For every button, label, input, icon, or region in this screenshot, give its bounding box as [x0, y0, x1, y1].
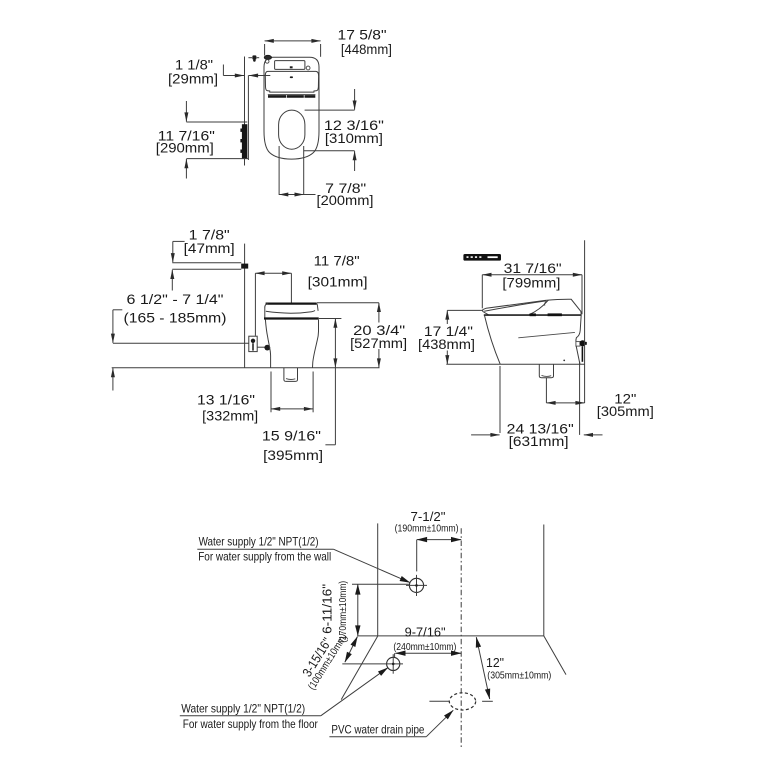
seat line [264, 317, 319, 319]
dimension 3-15/16 (100mm±10mm) [299, 632, 357, 692]
drain pipe below floor [539, 365, 553, 378]
back shelf box [576, 342, 580, 347]
svg-text:[47mm]: [47mm] [184, 240, 235, 256]
svg-text:For water supply from the wall: For water supply from the wall [198, 550, 331, 564]
seat front curve [529, 301, 547, 315]
svg-text:9-7/16": 9-7/16" [405, 624, 446, 639]
wall floor junction [357, 635, 544, 637]
dimension 11 7/8 [301mm] [255, 252, 367, 335]
svg-text:[290mm]: [290mm] [156, 140, 214, 156]
drain pipe ellipse [449, 693, 475, 710]
dimension 12 3/16 [310mm] [304, 89, 384, 171]
mounting plate on wall [240, 124, 247, 158]
svg-text:[29mm]: [29mm] [168, 70, 218, 86]
remote control [463, 254, 501, 261]
dimension 6 1/2 - 7 1/4 (165-185mm) [113, 291, 249, 391]
floor line [112, 367, 380, 369]
svg-text:15 9/16": 15 9/16" [262, 428, 321, 444]
svg-text:Water supply 1/2" NPT(1/2): Water supply 1/2" NPT(1/2) [199, 535, 319, 549]
drain ticks [429, 700, 492, 702]
dimension 7-1/2 (190mm±10mm) [395, 509, 462, 572]
left wall line [377, 523, 379, 636]
dimension 1 7/8 [47mm] [172, 226, 234, 290]
seat front thin line [268, 93, 316, 95]
PVC drain label [329, 710, 453, 736]
right wall line [543, 525, 545, 636]
dimension 17 5/8 [448mm] [265, 26, 392, 57]
svg-text:[448mm]: [448mm] [341, 41, 392, 57]
svg-text:(165 - 185mm): (165 - 185mm) [124, 310, 227, 326]
svg-text:[332mm]: [332mm] [202, 408, 258, 424]
dimension 7 7/8 [200mm] [279, 146, 373, 208]
supply valve box [249, 336, 257, 351]
floor supply circle [342, 654, 403, 674]
control panel rectangle [275, 61, 305, 70]
supply pipe [241, 264, 248, 269]
front face [485, 316, 501, 365]
seat line with dark pads [484, 314, 582, 316]
body sides [265, 320, 318, 368]
svg-text:(190mm±10mm): (190mm±10mm) [395, 524, 459, 535]
wall line [244, 244, 246, 368]
svg-text:[200mm]: [200mm] [317, 192, 374, 208]
svg-text:(240mm±10mm): (240mm±10mm) [393, 642, 456, 653]
right corner diagonal [544, 636, 566, 675]
centerline [460, 528, 462, 748]
dimension 11 7/16 [290mm] [156, 101, 249, 179]
svg-text:11 7/8": 11 7/8" [314, 252, 360, 268]
svg-text:6 1/2" - 7 1/4": 6 1/2" - 7 1/4" [127, 291, 224, 307]
dimension 12 [305mm] [546, 390, 653, 419]
dimension 17 1/4 [438mm] [418, 310, 483, 364]
floor line [446, 363, 585, 365]
dimension 1 1/8 [29mm] [168, 57, 270, 87]
bowl opening [279, 110, 305, 149]
toilet front view: lid top [265, 304, 318, 311]
dimension 13 1/16 [332mm] [197, 372, 313, 424]
seat lid outline [265, 71, 318, 92]
supply hose down [581, 346, 583, 361]
svg-text:7-1/2": 7-1/2" [411, 509, 446, 524]
svg-text:Water supply 1/2" NPT(1/2): Water supply 1/2" NPT(1/2) [181, 702, 305, 716]
svg-text:[395mm]: [395mm] [263, 447, 323, 463]
small circle right of panel [306, 66, 310, 70]
toilet side view: lid top outline [483, 299, 582, 315]
dimension 31 7/16 [799mm] [482, 260, 582, 314]
dimension 24 13/16 [631mm] [471, 366, 602, 449]
wall line [244, 57, 246, 166]
dimension 6-11/16 (170mm±10mm) [320, 581, 409, 643]
water inlet oval on toilet [264, 55, 271, 63]
shut-off valve icon [248, 55, 259, 61]
svg-text:(305mm±10mm): (305mm±10mm) [487, 670, 551, 681]
svg-text:[301mm]: [301mm] [308, 273, 368, 289]
hose to toilet [257, 346, 264, 348]
dimension 15 9/16 [395mm] [262, 319, 342, 463]
dimension 20 3/4 [527mm] [317, 303, 407, 368]
svg-text:[527mm]: [527mm] [350, 335, 407, 351]
dimension 12 (305mm±10mm) slanted [476, 637, 551, 699]
left corner diagonal [341, 636, 378, 700]
svg-text:6-11/16": 6-11/16" [320, 584, 335, 634]
wall line [584, 240, 586, 403]
svg-text:[305mm]: [305mm] [597, 403, 654, 419]
floor dot [563, 360, 565, 362]
left edge of lid [264, 307, 266, 319]
floor supply label [180, 668, 388, 731]
svg-text:PVC water drain pipe: PVC water drain pipe [331, 723, 424, 737]
drain trap below floor [284, 368, 298, 381]
svg-text:For water supply from the floo: For water supply from the floor [183, 717, 318, 731]
svg-text:[799mm]: [799mm] [502, 274, 560, 290]
dimension 9-7/16 (240mm±10mm) [393, 624, 461, 657]
toilet back extension [579, 362, 581, 435]
back upper edge [576, 315, 581, 342]
inlet knob on toilet [264, 345, 270, 351]
svg-text:[310mm]: [310mm] [325, 130, 383, 146]
svg-text:[631mm]: [631mm] [509, 433, 569, 449]
interior line [518, 332, 575, 337]
back lower edge [576, 346, 580, 364]
svg-text:12": 12" [486, 655, 504, 670]
svg-text:[438mm]: [438mm] [418, 336, 475, 352]
wall supply circle [406, 575, 427, 596]
toilet top view outline [264, 57, 319, 159]
seat front dark bar [268, 95, 315, 98]
supply pipe leader lines [172, 263, 241, 270]
wall line 2 (bracket face) [247, 75, 249, 160]
lid crease [545, 300, 550, 306]
drain center extension [545, 378, 547, 403]
lid bottom curve [266, 310, 315, 313]
wall supply label [197, 535, 410, 583]
lid seam [484, 301, 546, 311]
svg-text:13 1/16": 13 1/16" [197, 392, 255, 408]
supply knob [580, 340, 587, 346]
